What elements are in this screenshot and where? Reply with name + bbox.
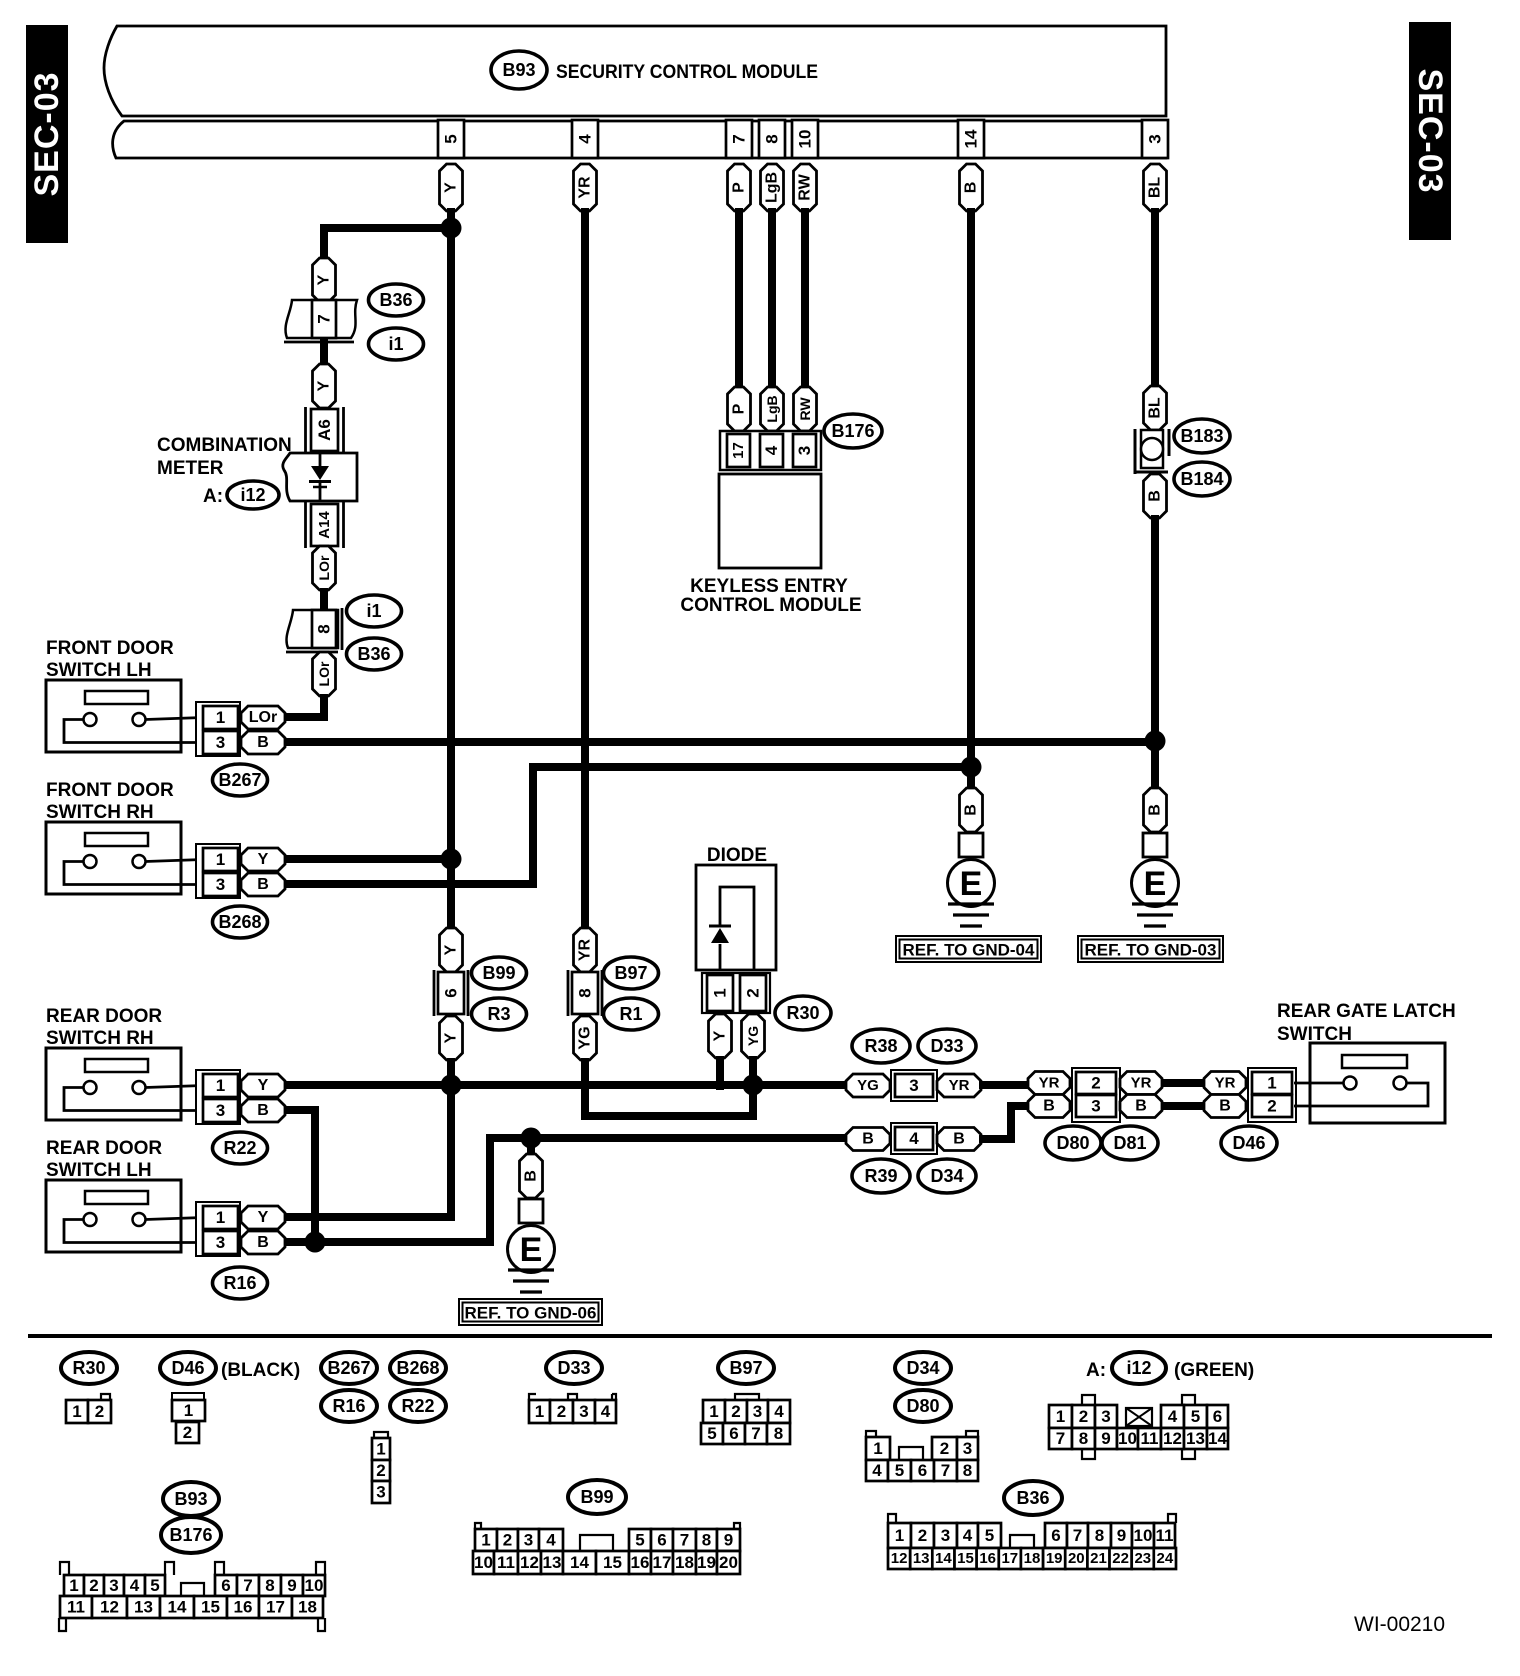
svg-text:2: 2 xyxy=(1079,1407,1088,1426)
wire label B (D81 out) xyxy=(1120,1095,1162,1118)
connector D46 pinout xyxy=(172,1393,205,1443)
svg-text:11: 11 xyxy=(1156,1526,1174,1545)
svg-text:15: 15 xyxy=(603,1553,622,1572)
svg-text:12: 12 xyxy=(100,1598,119,1617)
separator line xyxy=(28,1334,1492,1338)
svg-text:1: 1 xyxy=(895,1526,904,1545)
wire label P at module pin xyxy=(728,164,751,211)
svg-text:24: 24 xyxy=(1157,1550,1174,1567)
connector oval D80 xyxy=(1045,1126,1101,1160)
svg-text:9: 9 xyxy=(287,1576,296,1595)
svg-text:14: 14 xyxy=(570,1553,589,1572)
svg-text:R30: R30 xyxy=(72,1358,105,1378)
svg-text:B: B xyxy=(1135,1098,1147,1115)
svg-text:B99: B99 xyxy=(482,963,515,983)
connector oval R30 (pinout) xyxy=(61,1352,117,1384)
svg-text:18: 18 xyxy=(1024,1550,1041,1567)
svg-text:14: 14 xyxy=(935,1550,952,1567)
wire Y from diode xyxy=(716,1056,724,1090)
connector B99/R3 pin 6 xyxy=(434,970,468,1016)
svg-text:21: 21 xyxy=(1090,1550,1107,1567)
wire Y below connector xyxy=(447,1058,455,1090)
svg-text:1: 1 xyxy=(216,1076,225,1095)
svg-text:1: 1 xyxy=(873,1439,882,1458)
wire label YG (R38/D33) xyxy=(846,1074,890,1097)
svg-text:Y: Y xyxy=(443,944,460,955)
svg-text:Y: Y xyxy=(316,380,333,391)
connector D80/D81 pins 2 3 xyxy=(1072,1068,1120,1122)
connector B97 pinout xyxy=(701,1394,790,1444)
svg-text:1: 1 xyxy=(1267,1074,1276,1093)
svg-text:R3: R3 xyxy=(487,1004,510,1024)
svg-text:(GREEN): (GREEN) xyxy=(1174,1360,1254,1381)
svg-text:D33: D33 xyxy=(557,1358,590,1378)
wire label Y at module pin xyxy=(440,164,463,211)
ref box GND-03 xyxy=(1078,936,1223,962)
svg-text:12: 12 xyxy=(891,1550,908,1567)
svg-text:10: 10 xyxy=(1134,1526,1153,1545)
svg-text:Y: Y xyxy=(443,182,460,193)
svg-text:17: 17 xyxy=(1001,1550,1018,1567)
connector B267/B268/R16/R22 pinout xyxy=(372,1432,390,1503)
svg-text:13: 13 xyxy=(134,1598,153,1617)
svg-text:REF. TO GND-04: REF. TO GND-04 xyxy=(903,941,1035,960)
connector B36 pinout xyxy=(888,1514,1176,1569)
svg-text:5: 5 xyxy=(1191,1407,1200,1426)
front door switch RH xyxy=(46,780,285,938)
svg-text:3: 3 xyxy=(579,1402,588,1421)
svg-text:5: 5 xyxy=(150,1576,159,1595)
svg-text:KEYLESS ENTRY: KEYLESS ENTRY xyxy=(690,576,848,597)
wire label LOr (to door switch) xyxy=(313,652,336,696)
svg-text:23: 23 xyxy=(1134,1550,1151,1567)
wire Y from rear door switch RH xyxy=(285,1081,846,1089)
rear door switch LH xyxy=(46,1138,285,1299)
wire LOr between meter and B36 xyxy=(320,588,328,614)
svg-text:7: 7 xyxy=(680,1531,689,1550)
svg-text:3: 3 xyxy=(216,1233,225,1252)
svg-text:11: 11 xyxy=(1141,1429,1159,1448)
svg-text:REF. TO GND-06: REF. TO GND-06 xyxy=(465,1304,597,1323)
svg-text:12: 12 xyxy=(520,1553,539,1572)
svg-text:14: 14 xyxy=(168,1598,187,1617)
svg-text:SWITCH LH: SWITCH LH xyxy=(46,660,152,681)
wire label YG below B97/R1 xyxy=(574,1016,597,1060)
svg-text:5: 5 xyxy=(895,1461,904,1480)
svg-text:6: 6 xyxy=(1213,1407,1222,1426)
svg-text:15: 15 xyxy=(957,1550,974,1567)
svg-text:SEC-03: SEC-03 xyxy=(28,71,66,196)
svg-text:B267: B267 xyxy=(218,770,261,790)
svg-text:D80: D80 xyxy=(906,1396,939,1416)
svg-text:Y: Y xyxy=(258,1209,269,1226)
wire label B (R39/D34 left) xyxy=(846,1128,890,1151)
connector D33 pinout xyxy=(529,1394,616,1423)
svg-text:D46: D46 xyxy=(1232,1133,1265,1153)
svg-text:1: 1 xyxy=(184,1401,193,1420)
ground GND-04 xyxy=(948,767,995,926)
wire B to ground GND-03 xyxy=(1151,515,1159,742)
wire label YR above B97/R1 xyxy=(574,928,597,972)
svg-text:B176: B176 xyxy=(169,1525,212,1545)
svg-text:A:: A: xyxy=(1086,1360,1106,1381)
connector oval D34 xyxy=(918,1159,976,1193)
connector oval B184 xyxy=(1174,462,1230,496)
svg-text:R16: R16 xyxy=(332,1396,365,1416)
wire label B (D46) xyxy=(1204,1095,1246,1118)
connector oval D33 (pinout) xyxy=(546,1352,602,1384)
svg-text:17: 17 xyxy=(266,1598,285,1617)
svg-text:10: 10 xyxy=(796,130,815,149)
svg-text:B: B xyxy=(1147,490,1164,502)
svg-text:3: 3 xyxy=(216,875,225,894)
svg-text:3: 3 xyxy=(795,446,814,455)
combination meter pin A14 xyxy=(306,502,344,548)
wire label Y below B99/R3 xyxy=(440,1016,463,1060)
wire label LOr (meter out) xyxy=(313,546,336,590)
svg-text:1: 1 xyxy=(711,988,730,997)
svg-text:7: 7 xyxy=(751,1424,760,1443)
svg-text:YG: YG xyxy=(745,1026,761,1046)
wire YR from pin 4 xyxy=(581,208,589,932)
connector oval B176 xyxy=(824,414,882,448)
wire LOr to front door switch LH xyxy=(286,694,324,717)
wire label B below joint connector xyxy=(1144,474,1167,518)
svg-text:YG: YG xyxy=(577,1026,594,1049)
svg-text:LOr: LOr xyxy=(249,709,277,726)
svg-text:CONTROL MODULE: CONTROL MODULE xyxy=(680,595,861,616)
ground GND-06 chain xyxy=(508,1138,555,1292)
wire label Y (diode pin1) xyxy=(709,1014,732,1058)
svg-text:Y: Y xyxy=(443,1032,460,1043)
svg-text:14: 14 xyxy=(1208,1429,1227,1448)
svg-text:3: 3 xyxy=(753,1402,762,1421)
connector R30 pinout xyxy=(66,1394,111,1423)
wire label LgB (keyless) xyxy=(761,387,784,431)
connector oval R39 xyxy=(852,1159,910,1193)
svg-text:2: 2 xyxy=(376,1461,385,1480)
rear door switch RH xyxy=(46,1006,285,1164)
wire B from rear door switch LH xyxy=(285,1138,531,1242)
svg-text:YR: YR xyxy=(1131,1075,1152,1092)
svg-text:D46: D46 xyxy=(171,1358,204,1378)
svg-text:13: 13 xyxy=(1186,1429,1205,1448)
svg-text:5: 5 xyxy=(442,134,461,143)
svg-text:BL: BL xyxy=(1147,177,1164,199)
connector oval R16 (pinout) xyxy=(321,1390,377,1422)
svg-text:4: 4 xyxy=(872,1461,882,1480)
svg-text:B: B xyxy=(523,1170,540,1182)
svg-text:D81: D81 xyxy=(1113,1133,1146,1153)
svg-text:YR: YR xyxy=(577,176,594,199)
module pin 14 xyxy=(958,120,984,158)
svg-text:4: 4 xyxy=(601,1402,611,1421)
svg-text:13: 13 xyxy=(543,1553,562,1572)
front door switch LH xyxy=(46,638,285,796)
svg-text:10: 10 xyxy=(305,1576,324,1595)
svg-text:2: 2 xyxy=(1091,1074,1100,1093)
connector oval B99 xyxy=(472,957,527,989)
wire Y between B36 and combination meter xyxy=(320,338,328,370)
connector oval B97 xyxy=(604,957,659,989)
svg-text:2: 2 xyxy=(557,1402,566,1421)
wire B to R39/D34 connector xyxy=(531,1134,846,1142)
svg-text:3: 3 xyxy=(963,1439,972,1458)
svg-text:17: 17 xyxy=(730,442,747,459)
svg-text:3: 3 xyxy=(1101,1407,1110,1426)
node junction B wires rear doors xyxy=(305,1232,326,1253)
wire B from pin 14 xyxy=(967,208,975,767)
svg-text:19: 19 xyxy=(697,1553,716,1572)
svg-text:(BLACK): (BLACK) xyxy=(221,1360,300,1381)
wire B to D80 connector xyxy=(979,1106,1032,1139)
wire label Y above B99/R3 xyxy=(440,928,463,972)
svg-text:3: 3 xyxy=(524,1531,533,1550)
node junction on Y wire (to combination meter) xyxy=(441,218,462,239)
svg-text:SWITCH RH: SWITCH RH xyxy=(46,802,154,823)
wire Y from pin 5 xyxy=(447,208,455,932)
label (BLACK) xyxy=(221,1360,300,1381)
wire label RW (keyless) xyxy=(794,387,817,431)
svg-text:16: 16 xyxy=(979,1550,996,1567)
svg-text:2: 2 xyxy=(503,1531,512,1550)
svg-text:3: 3 xyxy=(909,1076,918,1095)
wire RW from pin 10 xyxy=(801,208,809,392)
label A: for i12 (pinout) xyxy=(1086,1360,1106,1381)
svg-text:2: 2 xyxy=(89,1576,98,1595)
svg-text:10: 10 xyxy=(1118,1429,1137,1448)
svg-text:1: 1 xyxy=(216,850,225,869)
svg-text:3: 3 xyxy=(1091,1097,1100,1116)
svg-text:D34: D34 xyxy=(906,1358,939,1378)
svg-text:B93: B93 xyxy=(502,60,535,80)
svg-text:1: 1 xyxy=(709,1402,718,1421)
svg-text:3: 3 xyxy=(216,733,225,752)
svg-text:8: 8 xyxy=(963,1461,972,1480)
svg-text:B97: B97 xyxy=(614,963,647,983)
connector oval D33 xyxy=(918,1029,976,1063)
wire label YR (D81 out) xyxy=(1120,1072,1162,1095)
svg-text:15: 15 xyxy=(201,1598,220,1617)
svg-text:B183: B183 xyxy=(1180,426,1223,446)
svg-text:4: 4 xyxy=(762,445,781,455)
wire label RW at module pin xyxy=(794,164,817,211)
wire LgB from pin 8 xyxy=(768,208,776,392)
wire label B (R39/D34 right) xyxy=(937,1128,981,1151)
svg-text:B: B xyxy=(953,1131,965,1148)
wire label B at module pin xyxy=(960,164,983,211)
svg-text:B: B xyxy=(862,1131,874,1148)
svg-text:B268: B268 xyxy=(396,1358,439,1378)
svg-text:REF. TO GND-03: REF. TO GND-03 xyxy=(1085,941,1217,960)
svg-text:METER: METER xyxy=(157,458,224,479)
svg-text:20: 20 xyxy=(1068,1550,1085,1567)
svg-text:17: 17 xyxy=(653,1553,672,1572)
svg-text:YR: YR xyxy=(577,938,594,961)
svg-text:WI-00210: WI-00210 xyxy=(1354,1613,1445,1636)
connector D80 pinout xyxy=(866,1431,978,1481)
wire YR D81 to D46 xyxy=(1161,1079,1206,1087)
svg-text:5: 5 xyxy=(635,1531,644,1550)
svg-text:E: E xyxy=(960,865,983,903)
svg-text:R38: R38 xyxy=(864,1036,897,1056)
svg-text:6: 6 xyxy=(442,988,461,997)
svg-text:RW: RW xyxy=(797,173,814,200)
svg-text:1: 1 xyxy=(69,1576,78,1595)
svg-text:1: 1 xyxy=(216,1208,225,1227)
connector oval i12 (pinout) xyxy=(1112,1352,1166,1384)
svg-text:2: 2 xyxy=(940,1439,949,1458)
connector oval R1 xyxy=(604,998,659,1030)
node junction Y / front door switch RH xyxy=(441,849,462,870)
connector oval R30 xyxy=(775,996,831,1030)
svg-text:E: E xyxy=(1144,865,1167,903)
svg-text:11: 11 xyxy=(497,1553,515,1572)
svg-text:FRONT DOOR: FRONT DOOR xyxy=(46,638,174,659)
svg-text:8: 8 xyxy=(576,988,595,997)
svg-text:R30: R30 xyxy=(786,1003,819,1023)
svg-text:7: 7 xyxy=(315,314,334,323)
wire YR to D80 xyxy=(979,1081,1032,1089)
svg-text:i12: i12 xyxy=(1126,1358,1151,1378)
svg-text:YR: YR xyxy=(949,1077,970,1094)
keyless entry control module body xyxy=(719,474,821,568)
svg-text:4: 4 xyxy=(774,1402,784,1421)
svg-text:B36: B36 xyxy=(1016,1488,1049,1508)
connector B97/R1 pin 8 xyxy=(568,970,602,1016)
svg-text:9: 9 xyxy=(1101,1429,1110,1448)
svg-text:19: 19 xyxy=(1046,1550,1063,1567)
svg-text:18: 18 xyxy=(675,1553,694,1572)
connector i12 pinout xyxy=(1049,1395,1228,1459)
wire label BL at module pin xyxy=(1144,164,1167,211)
svg-text:B: B xyxy=(963,182,980,194)
connector oval B97 (pinout) xyxy=(718,1352,774,1384)
right page tab SEC-03 xyxy=(1409,22,1451,240)
svg-text:5: 5 xyxy=(985,1526,994,1545)
connector oval B99 (pinout) xyxy=(568,1480,626,1514)
svg-text:REAR DOOR: REAR DOOR xyxy=(46,1006,162,1027)
wire label LgB at module pin xyxy=(761,164,784,211)
connector oval D34 (pinout) xyxy=(895,1352,951,1384)
svg-text:6: 6 xyxy=(221,1576,230,1595)
wire label BL (joint connector) xyxy=(1144,386,1167,430)
label SECURITY CONTROL MODULE xyxy=(556,61,818,83)
svg-text:E: E xyxy=(520,1231,543,1269)
svg-text:14: 14 xyxy=(962,129,981,148)
svg-text:8: 8 xyxy=(763,134,782,143)
svg-text:4: 4 xyxy=(963,1526,973,1545)
svg-text:R39: R39 xyxy=(864,1166,897,1186)
connector oval B183 xyxy=(1174,419,1230,453)
connector oval B268 (pinout) xyxy=(390,1352,446,1384)
svg-text:18: 18 xyxy=(298,1598,317,1617)
connector oval i1 (second) xyxy=(347,595,402,627)
connector oval D46 (pinout) xyxy=(160,1352,216,1384)
svg-text:B176: B176 xyxy=(831,421,874,441)
svg-text:REAR DOOR: REAR DOOR xyxy=(46,1138,162,1159)
svg-text:8: 8 xyxy=(774,1424,783,1443)
svg-text:YR: YR xyxy=(1215,1075,1236,1092)
svg-text:SWITCH RH: SWITCH RH xyxy=(46,1028,154,1049)
module pin 10 xyxy=(792,120,818,158)
module pin 3 xyxy=(1142,120,1168,158)
node junction YG wires xyxy=(743,1075,764,1096)
svg-text:COMBINATION: COMBINATION xyxy=(157,435,292,456)
svg-text:B: B xyxy=(963,804,980,816)
node junction B wire at BL wire xyxy=(1145,731,1166,752)
svg-text:P: P xyxy=(731,182,748,193)
wire YG loop to junction xyxy=(585,1058,753,1116)
connector oval R3 xyxy=(472,998,527,1030)
label WI-00210 xyxy=(1354,1613,1445,1636)
node junction B wires at pin14 wire xyxy=(961,757,982,778)
svg-text:REAR GATE LATCH: REAR GATE LATCH xyxy=(1277,1001,1456,1022)
combination meter body with indicator diode xyxy=(283,453,357,501)
svg-text:A:: A: xyxy=(203,486,223,507)
svg-text:B: B xyxy=(257,876,269,893)
svg-text:LgB: LgB xyxy=(764,395,780,422)
module pin 4 xyxy=(572,120,598,158)
connector oval B93 (pinout) xyxy=(163,1482,219,1516)
svg-text:6: 6 xyxy=(729,1424,738,1443)
wire B from rear door switch RH xyxy=(285,1110,315,1242)
connector oval B36 (pinout) xyxy=(1004,1481,1062,1515)
svg-text:8: 8 xyxy=(702,1531,711,1550)
label A: for i12 xyxy=(203,486,223,507)
connector oval i12 xyxy=(227,481,279,509)
svg-text:YG: YG xyxy=(857,1077,879,1094)
svg-text:R16: R16 xyxy=(223,1273,256,1293)
svg-text:B36: B36 xyxy=(379,290,412,310)
svg-text:B184: B184 xyxy=(1180,469,1223,489)
security control module B93 body xyxy=(104,26,1166,158)
svg-text:12: 12 xyxy=(1163,1429,1182,1448)
connector oval B176 (pinout) xyxy=(161,1517,221,1553)
svg-text:B97: B97 xyxy=(729,1358,762,1378)
connector oval R22 (pinout) xyxy=(390,1390,446,1422)
svg-text:1: 1 xyxy=(535,1402,544,1421)
svg-text:3: 3 xyxy=(216,1101,225,1120)
wire BL from pin 3 xyxy=(1151,208,1159,392)
svg-text:7: 7 xyxy=(1056,1429,1065,1448)
svg-text:1: 1 xyxy=(376,1440,385,1459)
svg-text:B267: B267 xyxy=(327,1358,370,1378)
svg-text:B: B xyxy=(257,734,269,751)
svg-text:1: 1 xyxy=(481,1531,490,1550)
svg-text:Y: Y xyxy=(258,1077,269,1094)
connector oval B267 (pinout) xyxy=(321,1352,377,1384)
svg-text:4: 4 xyxy=(130,1576,140,1595)
wire B from front door switch RH xyxy=(285,767,971,884)
svg-text:DIODE: DIODE xyxy=(707,845,767,866)
svg-text:7: 7 xyxy=(730,134,749,143)
connector oval B93 xyxy=(491,51,547,89)
label KEYLESS ENTRY CONTROL MODULE xyxy=(680,576,861,616)
wire P from pin 7 xyxy=(735,208,743,392)
svg-text:3: 3 xyxy=(109,1576,118,1595)
svg-text:7: 7 xyxy=(1073,1526,1082,1545)
connector B36 row with pin 8 xyxy=(286,608,342,652)
svg-text:20: 20 xyxy=(719,1553,738,1572)
svg-text:Y: Y xyxy=(258,851,269,868)
connector oval D46 xyxy=(1221,1126,1277,1160)
svg-text:11: 11 xyxy=(67,1598,85,1617)
svg-text:2: 2 xyxy=(95,1402,104,1421)
module pin 7 xyxy=(726,120,752,158)
svg-text:B: B xyxy=(1219,1098,1231,1115)
svg-text:SECURITY CONTROL MODULE: SECURITY CONTROL MODULE xyxy=(556,61,818,83)
